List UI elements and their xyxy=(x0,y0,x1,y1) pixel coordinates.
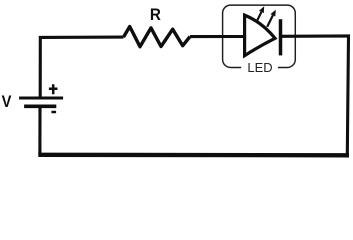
LED light arrow 2 shaft xyxy=(267,15,273,26)
LED D1 triangle (anode), curved sides xyxy=(245,15,275,56)
battery plus sign xyxy=(49,84,58,94)
svg-text:R: R xyxy=(150,5,161,24)
svg-text:V: V xyxy=(2,93,12,111)
gap in box bottom border for label xyxy=(241,64,278,71)
wire: LED cathode right, top-right corner, right side down xyxy=(282,36,349,155)
wire: battery minus down to bottom-left corner xyxy=(38,108,41,155)
LED light arrow 2 head xyxy=(271,10,276,17)
LED enclosure box xyxy=(223,5,296,67)
LED light arrow 1 head xyxy=(259,6,264,13)
wire: battery plus up to top-left corner, then top run to resistor xyxy=(40,37,123,98)
resistor R zigzag xyxy=(124,27,191,47)
battery V: negative plate (short) xyxy=(24,105,56,109)
svg-text:LED: LED xyxy=(247,60,272,75)
wire: resistor to LED anode xyxy=(190,35,245,38)
battery V: positive plate (long) xyxy=(19,96,63,99)
battery minus sign xyxy=(51,111,56,114)
wire: bottom run xyxy=(38,153,349,158)
LED light arrow 1 shaft xyxy=(257,12,261,21)
LED cathode bar xyxy=(279,19,283,55)
